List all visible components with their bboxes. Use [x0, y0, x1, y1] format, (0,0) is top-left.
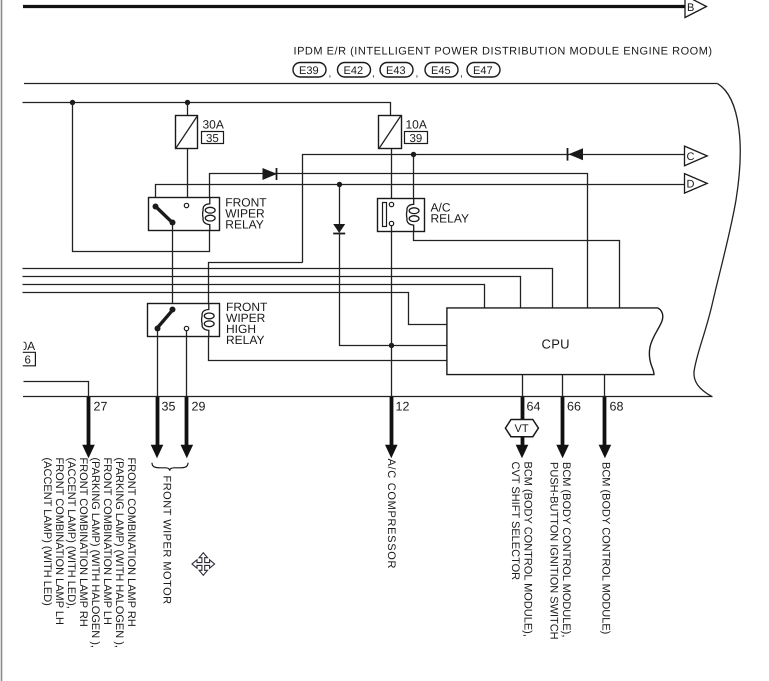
svg-text:6: 6	[25, 355, 31, 367]
svg-text:(PARKING LAMP) (WITH HALOGEN: (PARKING LAMP) (WITH HALOGEN ),	[113, 458, 125, 648]
label BCM (pin 68)	[600, 462, 612, 634]
wire relay K2 contact to pin 29	[186, 331, 188, 397]
relay K2 front wiper high relay	[148, 304, 220, 337]
svg-text:29: 29	[192, 400, 206, 414]
relay K3 label	[431, 201, 469, 226]
label front combination lamps (pin 27)	[41, 458, 137, 648]
junction node diode branch	[337, 182, 342, 187]
wire diode line to C output	[303, 155, 685, 263]
svg-text:E42: E42	[344, 65, 364, 77]
svg-text:BCM (BODY CONTROL MODULE): BCM (BODY CONTROL MODULE)	[600, 462, 612, 634]
connector arrow D	[685, 174, 708, 194]
wire thick power feed to B	[23, 5, 686, 8]
output arrow pin 64 with wire color tag VT	[505, 397, 538, 459]
output arrow pin 12	[385, 397, 398, 459]
output arrow pin 27	[82, 397, 95, 459]
connector oval E39	[293, 63, 331, 80]
wire relay K2 coil bottom to CPU	[209, 337, 447, 361]
wire front wiper relay coil top line	[210, 174, 588, 308]
relay K3 A/C relay	[378, 199, 425, 232]
output arrow pin 29	[181, 397, 194, 459]
fuse number 39	[405, 132, 428, 146]
fuse 30A	[175, 115, 223, 148]
relay K1 coil	[203, 198, 216, 231]
svg-text:12: 12	[396, 400, 410, 414]
svg-text:RELAY: RELAY	[431, 212, 469, 226]
svg-text:FRONT COMBINATION LAMP RH: FRONT COMBINATION LAMP RH	[125, 458, 137, 627]
wire relay K2 switch to pin 35	[157, 330, 159, 397]
label A/C compressor	[385, 459, 397, 570]
bus wire 4	[23, 293, 447, 325]
svg-text:A/C COMPRESSOR: A/C COMPRESSOR	[385, 459, 397, 570]
svg-text:FRONT COMBINATION LAMP RH: FRONT COMBINATION LAMP RH	[77, 458, 89, 627]
label BCM push-button ignition switch (pin 66)	[548, 462, 572, 640]
svg-text:E39: E39	[299, 65, 319, 77]
junction node fuse 30A	[185, 100, 190, 105]
svg-text:RELAY: RELAY	[226, 333, 264, 347]
svg-text:VT: VT	[515, 423, 529, 435]
wire down diode to CPU left	[340, 234, 447, 346]
relay K3 coil	[406, 198, 419, 232]
relay K1 front wiper relay	[149, 198, 220, 231]
junction node A/C relay coil feed	[411, 152, 416, 157]
bus wire 3	[23, 285, 485, 308]
relay K2 coil	[202, 303, 215, 337]
connector oval E42	[338, 63, 375, 80]
wire left branch to front wiper relay coil	[73, 103, 210, 252]
svg-text:E47: E47	[473, 65, 493, 77]
diode D1 pointing right	[263, 168, 278, 180]
diode D2 pointing left	[568, 148, 584, 161]
wire A/C coil bottom to CPU	[414, 232, 620, 308]
svg-text:E45: E45	[431, 65, 451, 77]
wire CPU pin 64	[522, 375, 524, 397]
svg-text:IPDM E/R (INTELLIGENT POWER DI: IPDM E/R (INTELLIGENT POWER DISTRIBUTION…	[294, 46, 713, 58]
relay K2 label	[226, 300, 268, 347]
junction node left branch	[70, 100, 75, 105]
svg-text:(PARKING LAMP) (WITH HALOGEN: (PARKING LAMP) (WITH HALOGEN ),	[89, 458, 101, 648]
svg-text:,: ,	[372, 69, 375, 80]
svg-text:66: 66	[567, 400, 581, 414]
label BCM CVT shift selector (pin 64)	[509, 462, 533, 637]
diode D3 pointing down	[333, 224, 345, 234]
mouse move cursor	[192, 553, 215, 576]
svg-text:64: 64	[527, 400, 541, 414]
svg-text:35: 35	[162, 400, 176, 414]
svg-text:27: 27	[94, 400, 108, 414]
wire main power bus	[23, 103, 391, 116]
svg-text:35: 35	[206, 133, 219, 145]
connector arrow B	[685, 0, 707, 18]
connector oval E45	[425, 63, 463, 80]
fuse number 35	[202, 132, 224, 146]
fuse 10A	[379, 115, 427, 148]
wire CPU pin 68	[604, 375, 606, 397]
svg-text:C: C	[687, 151, 695, 163]
junction node A/C output	[389, 343, 394, 348]
wire A/C relay output to pin 12	[391, 225, 393, 397]
svg-text:BCM (BODY CONTROL MODULE),: BCM (BODY CONTROL MODULE),	[560, 462, 572, 637]
svg-text:RELAY: RELAY	[225, 218, 263, 232]
svg-text:,: ,	[460, 69, 463, 80]
svg-text:30A: 30A	[203, 118, 224, 132]
IPDM box top border	[24, 83, 718, 85]
wire to down diode	[339, 184, 341, 224]
output arrow pin 35	[151, 397, 164, 459]
svg-text:(ACCENT LAMP) (WITH LED): (ACCENT LAMP) (WITH LED)	[41, 458, 53, 606]
svg-text:CVT SHIFT SELECTOR: CVT SHIFT SELECTOR	[509, 462, 521, 581]
svg-text:FRONT COMBINATION LAMP LH: FRONT COMBINATION LAMP LH	[53, 458, 65, 626]
wire to fuse 30A	[187, 102, 189, 115]
wire CPU pin 66	[562, 375, 564, 397]
svg-text:(ACCENT LAMP) (WITH LED),: (ACCENT LAMP) (WITH LED),	[65, 458, 77, 609]
wire fuse 30A to relay contact	[187, 149, 189, 204]
wire front wiper relay switch line to D output	[156, 185, 685, 204]
connector oval E43	[380, 63, 418, 80]
bus wire 2	[23, 277, 521, 308]
IPDM box bottom border	[23, 396, 712, 398]
output arrow pin 66	[556, 397, 569, 459]
svg-text:10A: 10A	[406, 118, 427, 132]
CPU U1	[447, 308, 663, 375]
wire relay K2 coil feed	[209, 263, 303, 304]
svg-text:D: D	[687, 179, 695, 191]
page left border	[1, 0, 3, 681]
brace front wiper motor group	[152, 463, 188, 471]
connector oval E47	[467, 63, 500, 78]
partial fuse number box 6	[23, 352, 36, 366]
output arrow pin 68	[599, 397, 612, 459]
relay K1 label	[225, 196, 267, 232]
svg-text:B: B	[687, 2, 694, 14]
label front wiper motor	[161, 476, 173, 605]
svg-text:PUSH-BUTTON IGNITION SWITCH: PUSH-BUTTON IGNITION SWITCH	[548, 462, 560, 640]
wire to pin 27	[24, 382, 89, 397]
svg-text:CPU: CPU	[542, 337, 570, 352]
svg-text:39: 39	[410, 133, 423, 145]
connector arrow C	[685, 146, 708, 166]
svg-text:E43: E43	[386, 65, 406, 77]
svg-text:BCM (BODY CONTROL MODULE),: BCM (BODY CONTROL MODULE),	[522, 462, 534, 637]
IPDM box right torn edge	[694, 84, 740, 397]
wire A/C coil top	[413, 154, 415, 198]
svg-text:FRONT WIPER MOTOR: FRONT WIPER MOTOR	[161, 476, 173, 605]
bus wire 1	[23, 269, 553, 308]
svg-text:,: ,	[329, 69, 332, 80]
svg-text:,: ,	[416, 69, 419, 80]
svg-text:68: 68	[610, 400, 624, 414]
wire fuse 10A to A/C relay contact	[391, 149, 393, 203]
wire relay K1 switch to relay K2 switch	[172, 223, 174, 310]
svg-text:FRONT COMBINATION LAMP LH: FRONT COMBINATION LAMP LH	[101, 458, 113, 626]
